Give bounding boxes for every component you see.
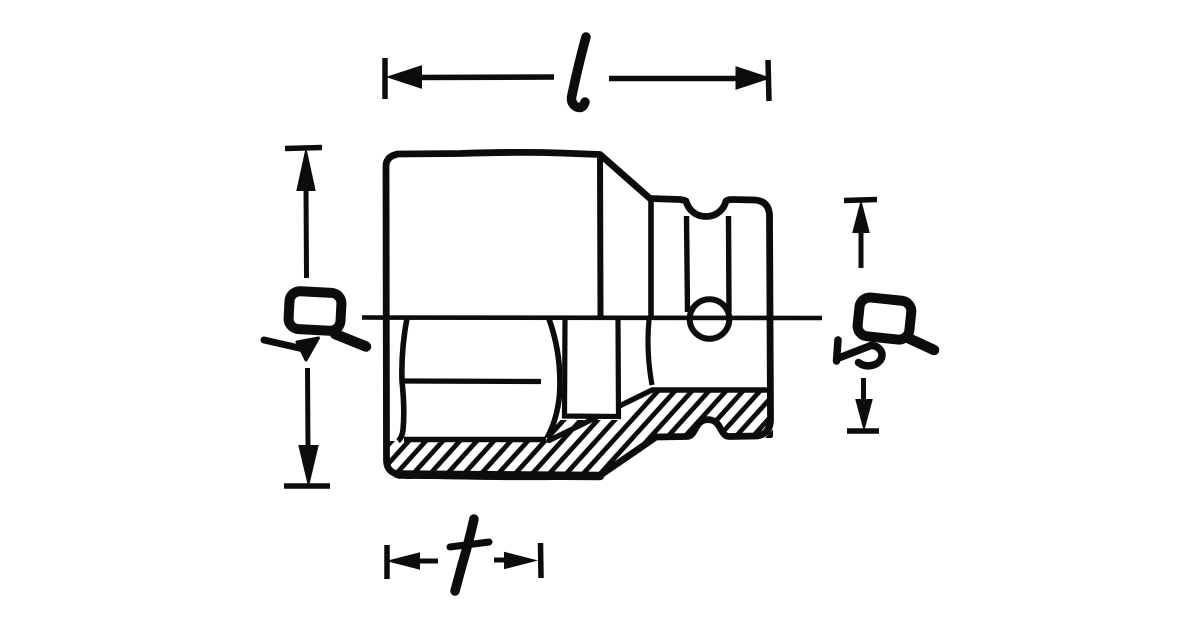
dimension d2: lower shaft xyxy=(861,378,866,400)
hex recess bottom wall line B xyxy=(404,437,546,443)
dimension t: right tick xyxy=(538,543,544,578)
dimension l: left arrowhead xyxy=(389,67,421,88)
pin hole circle xyxy=(690,299,730,339)
dimension t: right arrowhead xyxy=(505,553,534,568)
dimension d2: top arrowhead xyxy=(854,203,869,232)
label t crossbar xyxy=(450,542,489,547)
centerline xyxy=(362,315,822,320)
dimension t: left shaft xyxy=(417,559,438,564)
dimension d2: upper shaft xyxy=(859,228,864,268)
dimension d1: top arrowhead xyxy=(298,151,315,190)
dimension l: right arrowhead xyxy=(737,68,769,89)
dimension d1: bottom tick xyxy=(284,483,330,489)
dimension d1: upper shaft xyxy=(304,186,310,278)
dimension l: right shaft xyxy=(609,76,739,82)
dimension d2: bottom arrowhead xyxy=(857,400,872,428)
label d2 subscript 2 xyxy=(837,340,839,361)
label l xyxy=(572,37,586,108)
dimension d2: top tick xyxy=(844,200,877,201)
bottom edge overdraw (thick) xyxy=(399,475,600,477)
dimension t: left arrowhead xyxy=(390,554,419,569)
dimension d1: bottom arrowhead xyxy=(300,446,318,484)
hatch top boundary: recess floor diagonal and square-hole bottom wall xyxy=(549,390,766,441)
dimension l: right tick xyxy=(768,60,769,101)
through-hole cavity (white rectangle) xyxy=(562,320,621,415)
groove edge right xyxy=(726,216,732,312)
label d1 bowl xyxy=(288,291,342,332)
groove edge left xyxy=(687,216,688,312)
dimension d1: lower shaft xyxy=(305,368,311,450)
dimension d2: bottom tick xyxy=(847,428,879,434)
dimension d1: top tick xyxy=(285,148,322,149)
edge line: end of large cylinder xyxy=(597,153,604,317)
dimension t: right shaft xyxy=(494,558,507,563)
hex recess chamfer edge (left interior) xyxy=(398,318,407,441)
edge line: taper to rear section xyxy=(648,200,654,317)
hex flat edge line A xyxy=(402,378,541,384)
socket body outer outline xyxy=(386,152,771,476)
dimension l: left tick xyxy=(382,58,388,99)
dimension t: left tick xyxy=(384,545,390,579)
hatching (section lines, lower wall) xyxy=(300,371,829,505)
label d2 stem xyxy=(908,338,934,350)
dimension l: left shaft xyxy=(418,74,554,80)
label d2 bowl xyxy=(857,296,913,340)
label d1 stem xyxy=(335,334,366,347)
square hole left edge (section) xyxy=(648,320,652,385)
hex recess end (wavy vertical) xyxy=(547,319,560,438)
label d1 subscript 1 xyxy=(264,340,308,350)
label t stroke xyxy=(455,519,474,591)
